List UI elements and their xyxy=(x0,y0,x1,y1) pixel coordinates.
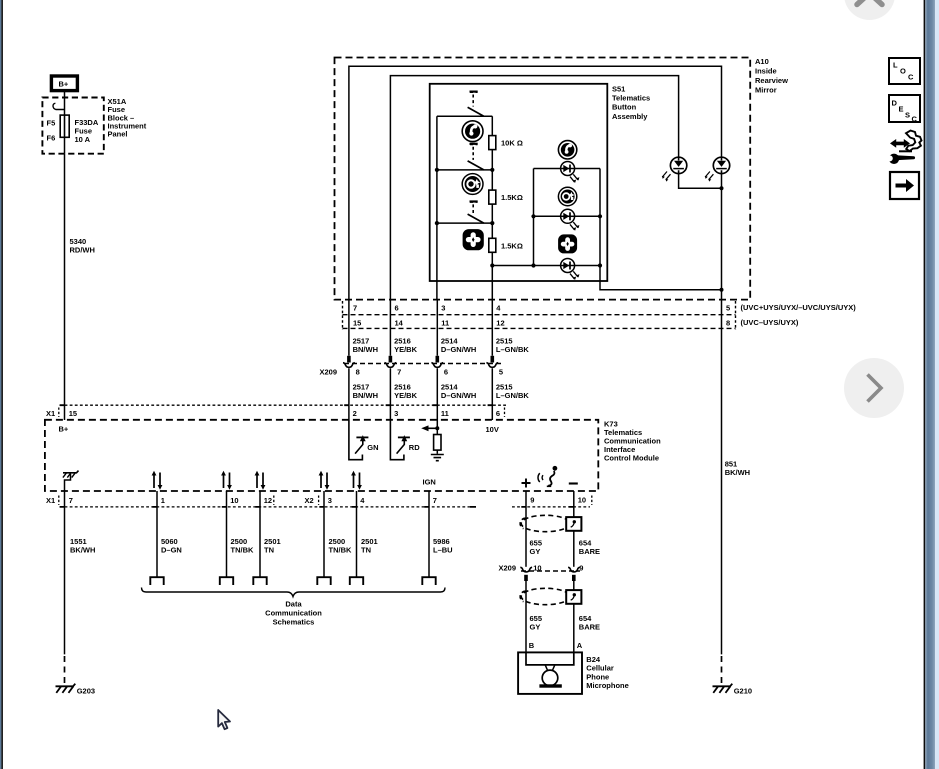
svg-text:3: 3 xyxy=(328,496,332,505)
svg-text:TN/BK: TN/BK xyxy=(329,545,352,554)
switch left rail xyxy=(436,116,438,299)
svg-text:8: 8 xyxy=(356,368,360,377)
svg-text:15: 15 xyxy=(353,319,361,328)
resistor R1 10K xyxy=(489,136,496,150)
LOC button xyxy=(889,58,920,84)
led row B wire xyxy=(534,215,601,217)
svg-text:6: 6 xyxy=(444,368,448,377)
right scrollbar gradient strip xyxy=(925,0,935,769)
svg-text:11: 11 xyxy=(441,409,449,418)
svg-text:YE/BK: YE/BK xyxy=(394,391,418,400)
label X1 top xyxy=(46,409,55,418)
svg-text:O: O xyxy=(900,67,906,76)
terminal cap pin1 wire xyxy=(150,577,163,585)
label UVC variants row2 xyxy=(741,318,799,327)
X209 mic terminal pin 9 xyxy=(568,567,580,581)
svg-text:L–GN/BK: L–GN/BK xyxy=(496,345,530,354)
svg-text:BN/WH: BN/WH xyxy=(353,391,378,400)
led row C wire xyxy=(492,265,600,267)
clip symbol in fuse block xyxy=(53,103,65,109)
svg-text:11: 11 xyxy=(441,319,449,328)
svg-text:1.5KΩ: 1.5KΩ xyxy=(501,193,523,202)
svg-text:10K Ω: 10K Ω xyxy=(501,139,523,148)
svg-text:Schematics: Schematics xyxy=(273,617,315,626)
shield drain symbol upper xyxy=(566,517,581,531)
microphone element inside B24 xyxy=(526,652,574,687)
A10 inside rearview mirror dashed box xyxy=(335,58,751,300)
svg-text:Inside: Inside xyxy=(755,67,777,76)
K73 X1 top connector dotted row xyxy=(60,404,509,406)
label X1 bottom xyxy=(46,496,55,505)
pin 11 sense arrow xyxy=(421,420,439,435)
svg-text:1.5KΩ: 1.5KΩ xyxy=(501,241,523,250)
label Data Communication Schematics xyxy=(265,600,322,627)
svg-text:G210: G210 xyxy=(734,686,752,695)
svg-text:BN/WH: BN/WH xyxy=(353,345,378,354)
microphone input icon xyxy=(538,466,557,486)
svg-text:S51: S51 xyxy=(612,84,625,93)
label GN xyxy=(367,443,378,452)
red LED indicator RD xyxy=(390,420,410,460)
svg-text:B: B xyxy=(529,641,535,650)
label RD xyxy=(409,443,420,452)
fuse block X51A dashed box xyxy=(42,98,103,154)
label G203 xyxy=(77,686,95,695)
data wire pin 1 xyxy=(156,491,158,577)
data wire pin 3 xyxy=(323,491,325,577)
data wire pin 12 xyxy=(259,491,261,577)
LED left in mirror xyxy=(662,157,687,181)
battery feed B+ box xyxy=(51,76,77,91)
connector row right tick xyxy=(735,301,737,330)
wire B+ to fuse block xyxy=(64,92,66,100)
data schematics brace xyxy=(142,588,446,597)
label 5340 RD/WH xyxy=(70,237,95,255)
svg-text:Cellular: Cellular xyxy=(586,664,614,673)
svg-text:10: 10 xyxy=(578,496,586,505)
svg-text:B24: B24 xyxy=(586,655,601,664)
label K73 Telematics Communication Interface Control Module xyxy=(604,419,661,462)
switch 2 actuator dashes xyxy=(470,144,478,160)
svg-text:D–GN/WH: D–GN/WH xyxy=(441,345,476,354)
wires A10 pins to X209 xyxy=(349,300,492,356)
svg-text:7: 7 xyxy=(353,304,357,313)
K73 bottom X2 mic dotted row xyxy=(512,506,590,508)
label F33DA Fuse 10 A xyxy=(75,118,99,144)
X209 terminal pin 8 xyxy=(343,356,355,368)
dashed wire to G203 xyxy=(64,656,66,683)
svg-text:B+: B+ xyxy=(59,80,69,89)
svg-text:Rearview: Rearview xyxy=(755,76,788,85)
svg-text:RD/WH: RD/WH xyxy=(70,245,95,254)
svg-text:A10: A10 xyxy=(755,57,769,66)
label 10V xyxy=(486,425,499,434)
ign wire pin 7 xyxy=(428,491,430,577)
X209 mic connector dashed row xyxy=(521,570,580,572)
mic negative wire upper xyxy=(573,491,575,567)
svg-text:9: 9 xyxy=(530,496,534,505)
label B+ inside module xyxy=(59,425,69,434)
switch 3 blade xyxy=(468,214,484,223)
terminal cap pin3 wire xyxy=(317,577,330,585)
resistor R2 1.5K xyxy=(489,190,496,204)
label X209 mic xyxy=(499,563,517,572)
wire labels below X209 xyxy=(353,382,530,400)
label 1.5K ohm lower xyxy=(501,241,523,250)
dashed wire to G210 xyxy=(721,656,723,683)
led row A wire xyxy=(534,168,601,170)
svg-text:F6: F6 xyxy=(47,134,56,143)
switch row 1 wire xyxy=(437,115,492,117)
bottom row ticks xyxy=(59,496,592,507)
wire feed pin6 up and across to left LED xyxy=(390,76,678,300)
ground G210 xyxy=(713,684,733,693)
svg-text:10 A: 10 A xyxy=(75,135,91,144)
svg-text:IGN: IGN xyxy=(423,477,436,486)
label 2501 TN right xyxy=(361,537,378,555)
switch row 2 wire xyxy=(437,169,492,171)
LED A xyxy=(561,162,580,183)
label B24 Cellular Phone Microphone xyxy=(586,655,629,690)
next page nav button xyxy=(844,358,904,418)
K73 bottom X1 connector dotted row xyxy=(60,506,477,508)
left window edge strip xyxy=(0,0,3,769)
switch 3 actuator dashes xyxy=(470,202,478,214)
svg-text:Phone: Phone xyxy=(586,672,609,681)
LED B xyxy=(561,209,580,230)
fuse F33DA xyxy=(60,100,69,154)
svg-text:(UVC–UYS/UYX): (UVC–UYS/UYX) xyxy=(741,318,799,327)
emergency button icon xyxy=(463,230,483,250)
data wire pin 10 xyxy=(226,491,228,577)
svg-text:GY: GY xyxy=(530,622,541,631)
wrench-arrow tool icon xyxy=(887,131,922,165)
svg-text:6: 6 xyxy=(395,304,399,313)
svg-text:Microphone: Microphone xyxy=(586,681,629,690)
svg-text:10V: 10V xyxy=(486,425,499,434)
svg-text:12: 12 xyxy=(496,319,504,328)
svg-text:6: 6 xyxy=(496,409,500,418)
label X209 xyxy=(320,368,338,377)
label F5 F6 xyxy=(47,119,56,143)
svg-text:Communication: Communication xyxy=(265,609,322,618)
label minus xyxy=(569,482,578,484)
svg-text:Control Module: Control Module xyxy=(604,453,659,462)
label 655 GY lower xyxy=(530,614,543,632)
ground G203 xyxy=(56,684,76,693)
serial data arrows pin 4 xyxy=(351,471,362,490)
svg-text:D–GN/WH: D–GN/WH xyxy=(441,391,476,400)
mic negative wire lower xyxy=(573,581,575,652)
svg-text:D: D xyxy=(892,99,898,108)
shield loop lower xyxy=(520,588,570,604)
svg-text:X1: X1 xyxy=(46,409,55,418)
svg-text:Assembly: Assembly xyxy=(612,112,648,121)
label 2500 TN/BK right xyxy=(329,537,352,555)
svg-text:TN: TN xyxy=(264,545,274,554)
svg-text:X2: X2 xyxy=(305,496,314,505)
serial data arrows pin 12 xyxy=(255,471,266,490)
label UVC variants row1 xyxy=(741,303,857,312)
pin numbers K73 bottom 7 1 10 12 3 4 7 9 10 xyxy=(69,496,586,506)
svg-text:7: 7 xyxy=(433,496,437,505)
wire feed pin7 up and across to right LED xyxy=(349,66,722,299)
wire 5340 RD/WH fuse to X1-15 xyxy=(64,154,66,420)
junction dots led rails xyxy=(531,214,602,267)
label 1551 BK/WH xyxy=(70,537,95,555)
svg-text:C: C xyxy=(908,73,914,82)
shield loop upper xyxy=(520,515,570,531)
svg-text:12: 12 xyxy=(264,496,272,505)
K73 telematics module dashed box xyxy=(45,420,598,491)
switch row 3 wire xyxy=(437,222,492,224)
label 655 GY upper xyxy=(530,538,543,556)
pin numbers mirror connector 7 6 3 4 5 xyxy=(353,304,730,313)
S51 telematics button assembly box xyxy=(430,84,608,281)
arrow button xyxy=(890,172,919,199)
data wire pin 4 xyxy=(356,491,358,577)
terminal cap pin4 wire xyxy=(350,577,363,585)
svg-text:5: 5 xyxy=(726,304,730,313)
resistor R3 1.5K xyxy=(489,238,496,252)
svg-text:Telematics: Telematics xyxy=(612,94,650,103)
label 5986 L-BU xyxy=(433,537,453,555)
svg-text:Panel: Panel xyxy=(108,130,128,139)
svg-text:BK/WH: BK/WH xyxy=(70,545,95,554)
svg-text:10: 10 xyxy=(230,496,238,505)
switch 1 blade xyxy=(468,107,484,116)
label X2 bottom xyxy=(305,496,314,505)
wire S51 led rail to pin5 wire xyxy=(600,266,722,290)
svg-text:RD: RD xyxy=(409,443,420,452)
junction at 721.5,289.8 xyxy=(720,288,724,292)
svg-text:S: S xyxy=(905,111,910,120)
terminal cap ign wire xyxy=(422,577,435,585)
serial data arrows pin 1 xyxy=(152,471,163,490)
DESC button xyxy=(889,95,920,124)
X209 terminal pin 7 xyxy=(385,356,397,368)
svg-text:14: 14 xyxy=(395,319,404,328)
svg-text:GN: GN xyxy=(367,443,378,452)
X209 terminal pin 6 xyxy=(431,356,443,368)
svg-text:5: 5 xyxy=(499,368,503,377)
svg-text:B+: B+ xyxy=(59,425,69,434)
label pin B xyxy=(529,641,535,650)
pin numbers inline connector 15 14 11 12 8 xyxy=(353,319,730,328)
label 10K ohm xyxy=(501,139,523,148)
pull resistor pin 11 xyxy=(434,435,441,451)
label 654 BARE lower xyxy=(579,614,600,632)
svg-text:BARE: BARE xyxy=(579,547,600,556)
onstar button icon xyxy=(462,174,483,195)
serial data arrows pin 10 xyxy=(221,471,232,490)
X209 mic pin numbers 10 9 xyxy=(533,563,583,572)
inline connector row lower dashed xyxy=(343,327,736,329)
svg-text:(UVC+UYS/UYX/–UVC/UYS/UYX): (UVC+UYS/UYX/–UVC/UYS/UYX) xyxy=(741,303,857,312)
label plus xyxy=(522,479,531,488)
wires X209 to K73 X1 row xyxy=(349,368,492,420)
emergency indicator icon xyxy=(559,235,577,253)
mic positive wire lower xyxy=(525,581,527,652)
label 5060 D-GN xyxy=(161,537,182,555)
wire 1551 BK/WH pin7 to G203 xyxy=(64,491,66,654)
svg-text:15: 15 xyxy=(69,409,77,418)
label IGN xyxy=(423,477,436,486)
inline connector row upper dashed xyxy=(343,314,736,316)
X1 top row ticks xyxy=(59,405,505,417)
label 1.5K ohm xyxy=(501,193,523,202)
label 2500 TN/BK left xyxy=(231,537,254,555)
svg-text:2: 2 xyxy=(353,409,357,418)
led column right rail xyxy=(599,169,601,266)
svg-text:Data: Data xyxy=(285,600,302,609)
module internal ground above pin 7 xyxy=(63,471,79,491)
X209 mic terminal pin 10 xyxy=(520,567,532,581)
svg-text:7: 7 xyxy=(69,496,73,505)
switch 2 blade xyxy=(468,161,484,170)
wire 851 BK/WH pin5 to G210 xyxy=(721,300,723,655)
svg-text:1: 1 xyxy=(161,496,165,505)
svg-text:E: E xyxy=(899,105,904,114)
label 654 BARE upper xyxy=(579,538,600,556)
svg-text:BK/WH: BK/WH xyxy=(725,468,750,477)
svg-text:L: L xyxy=(893,61,898,70)
X209 connector dashed row xyxy=(344,363,501,365)
led column left rail xyxy=(533,169,535,266)
LED C xyxy=(561,259,580,280)
X209 pin numbers 8 7 6 5 xyxy=(356,368,503,377)
svg-text:10: 10 xyxy=(533,563,541,572)
svg-text:F5: F5 xyxy=(47,119,56,128)
green LED indicator GN xyxy=(349,420,369,460)
label A10 Inside Rearview Mirror xyxy=(755,57,788,94)
serial data arrows pin 3 xyxy=(319,471,330,490)
svg-text:D–GN: D–GN xyxy=(161,545,182,554)
svg-text:8: 8 xyxy=(726,319,730,328)
junction at 721.5,188.2 xyxy=(720,186,724,190)
X209 terminal pin 5 xyxy=(486,356,498,368)
close button top right xyxy=(844,0,895,20)
svg-text:TN/BK: TN/BK xyxy=(231,545,254,554)
right window edge black line xyxy=(924,0,926,769)
signal ground below resistor xyxy=(431,450,444,461)
connector row left tick xyxy=(342,301,344,330)
svg-text:BARE: BARE xyxy=(579,622,600,631)
svg-text:L–GN/BK: L–GN/BK xyxy=(496,391,530,400)
label pin A xyxy=(577,641,583,650)
svg-text:C: C xyxy=(912,115,918,124)
right scrollbar light track xyxy=(935,0,939,769)
label S51 Telematics Button Assembly xyxy=(612,84,650,121)
svg-text:7: 7 xyxy=(397,368,401,377)
svg-text:X1: X1 xyxy=(46,496,55,505)
phone indicator icon xyxy=(558,141,576,159)
mic positive wire upper xyxy=(525,491,527,567)
svg-text:L–BU: L–BU xyxy=(433,545,453,554)
svg-text:YE/BK: YE/BK xyxy=(394,345,418,354)
switch 1 actuator dashes xyxy=(470,92,478,107)
svg-text:X209: X209 xyxy=(320,368,338,377)
onstar indicator icon xyxy=(558,187,576,205)
label X51A Fuse Block - Instrument Panel xyxy=(108,97,147,139)
svg-text:Mirror: Mirror xyxy=(755,85,777,94)
label 851 BK/WH xyxy=(725,459,750,477)
svg-text:X209: X209 xyxy=(499,563,517,572)
terminal cap pin10 wire xyxy=(220,577,233,585)
pin numbers K73 X1 top 15 2 3 11 6 xyxy=(69,409,500,418)
svg-text:TN: TN xyxy=(361,545,371,554)
svg-text:Button: Button xyxy=(612,103,637,112)
label G210 xyxy=(734,686,752,695)
phone button icon xyxy=(462,121,483,142)
svg-text:A: A xyxy=(577,641,583,650)
B24 cellular phone microphone box xyxy=(518,652,582,694)
resistor chain rail xyxy=(491,116,493,299)
label 2501 TN left xyxy=(264,537,281,555)
svg-text:3: 3 xyxy=(394,409,398,418)
shield drain symbol lower xyxy=(566,590,581,604)
LED right in mirror xyxy=(705,157,730,181)
wire LED cathodes join xyxy=(679,173,722,299)
junction dots switch rows xyxy=(435,168,495,268)
svg-text:G203: G203 xyxy=(77,686,95,695)
svg-text:GY: GY xyxy=(530,547,541,556)
svg-text:3: 3 xyxy=(441,304,445,313)
wire labels above X209 xyxy=(353,337,530,355)
terminal cap pin12 wire xyxy=(253,577,266,585)
mouse cursor xyxy=(218,710,230,729)
